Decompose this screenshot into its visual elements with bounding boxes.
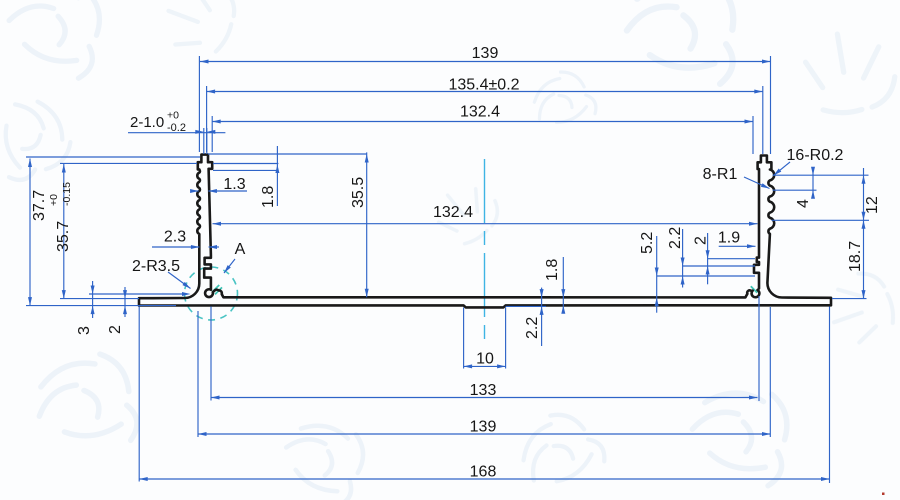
centerline	[484, 159, 486, 346]
svg-text:35.7: 35.7	[55, 221, 72, 252]
dim 2-1.0 leader	[128, 132, 225, 134]
dim 4	[812, 167, 814, 198]
dim 2 left	[124, 287, 126, 317]
dim 132.4 mid	[213, 223, 758, 225]
svg-text:2-1.0: 2-1.0	[130, 114, 164, 131]
svg-text:37.7: 37.7	[31, 190, 48, 221]
dim 1.8 wall	[276, 146, 278, 206]
dim 35.7	[63, 164, 65, 299]
dimension lines	[26, 56, 869, 483]
svg-text:+0: +0	[167, 110, 179, 122]
svg-text:8-R1: 8-R1	[703, 166, 738, 183]
svg-text:139: 139	[472, 45, 499, 62]
svg-text:1.3: 1.3	[223, 176, 245, 193]
groove hatch slash right	[751, 286, 757, 293]
svg-text:133: 133	[470, 382, 497, 399]
dim 133	[211, 397, 758, 399]
groove hatch slashes left	[212, 285, 222, 294]
svg-text:12: 12	[864, 196, 881, 214]
svg-text:2.2: 2.2	[524, 317, 541, 339]
dim 10	[463, 308, 465, 369]
dim 35.5	[366, 152, 368, 297]
leader 8-R1	[744, 177, 770, 189]
dim 168	[139, 478, 829, 480]
svg-text:-0.15: -0.15	[61, 182, 73, 206]
svg-text:1.8: 1.8	[544, 259, 561, 281]
dim 1.9	[719, 245, 756, 247]
svg-text:139: 139	[470, 419, 497, 436]
dim 3	[92, 281, 94, 318]
svg-text:2.3: 2.3	[164, 229, 186, 246]
dim 12	[863, 168, 865, 220]
svg-text:5.2: 5.2	[639, 232, 656, 254]
dim 139 top	[200, 61, 771, 63]
svg-text:2: 2	[107, 325, 124, 334]
dim 135.4 top	[207, 91, 763, 93]
svg-text:2.2: 2.2	[667, 227, 684, 249]
dim 132.4 top	[212, 121, 753, 123]
dim 2.2 boss	[541, 288, 543, 346]
leader 16-R0.2	[774, 162, 791, 176]
arrowheads	[28, 60, 866, 482]
svg-text:132.4: 132.4	[460, 104, 500, 121]
svg-text:4: 4	[795, 199, 812, 208]
svg-text:132.4: 132.4	[433, 204, 473, 221]
svg-text:2-R3.5: 2-R3.5	[132, 258, 180, 275]
leader A	[224, 259, 235, 273]
svg-text:3: 3	[76, 326, 93, 335]
svg-text:135.4±0.2: 135.4±0.2	[448, 77, 519, 94]
svg-text:18.7: 18.7	[847, 241, 864, 272]
dim 1.3	[193, 190, 199, 192]
svg-text:168: 168	[470, 464, 497, 481]
svg-text:+0: +0	[48, 194, 60, 206]
dim 139 bottom	[198, 433, 771, 435]
svg-text:1.8: 1.8	[260, 186, 277, 208]
leader 2-R3.5	[168, 272, 191, 289]
dim 37.7	[29, 159, 31, 306]
svg-text:16-R0.2: 16-R0.2	[787, 147, 844, 164]
svg-text:1.9: 1.9	[718, 230, 740, 247]
profile outline	[139, 155, 831, 308]
dim 2.3	[152, 246, 199, 248]
red speck bottom right	[882, 493, 885, 496]
dim 2 right	[707, 233, 709, 284]
svg-text:-0.2: -0.2	[167, 122, 186, 134]
svg-text:35.5: 35.5	[350, 177, 367, 208]
detail circle A	[185, 267, 238, 320]
dim 2.2 right	[682, 229, 684, 288]
dim 1.8 plate	[562, 257, 564, 312]
svg-text:A: A	[235, 241, 246, 258]
dim 18.7	[863, 220, 865, 298]
dim 5.2	[656, 236, 658, 313]
svg-text:2: 2	[693, 236, 710, 245]
svg-text:10: 10	[476, 351, 494, 368]
